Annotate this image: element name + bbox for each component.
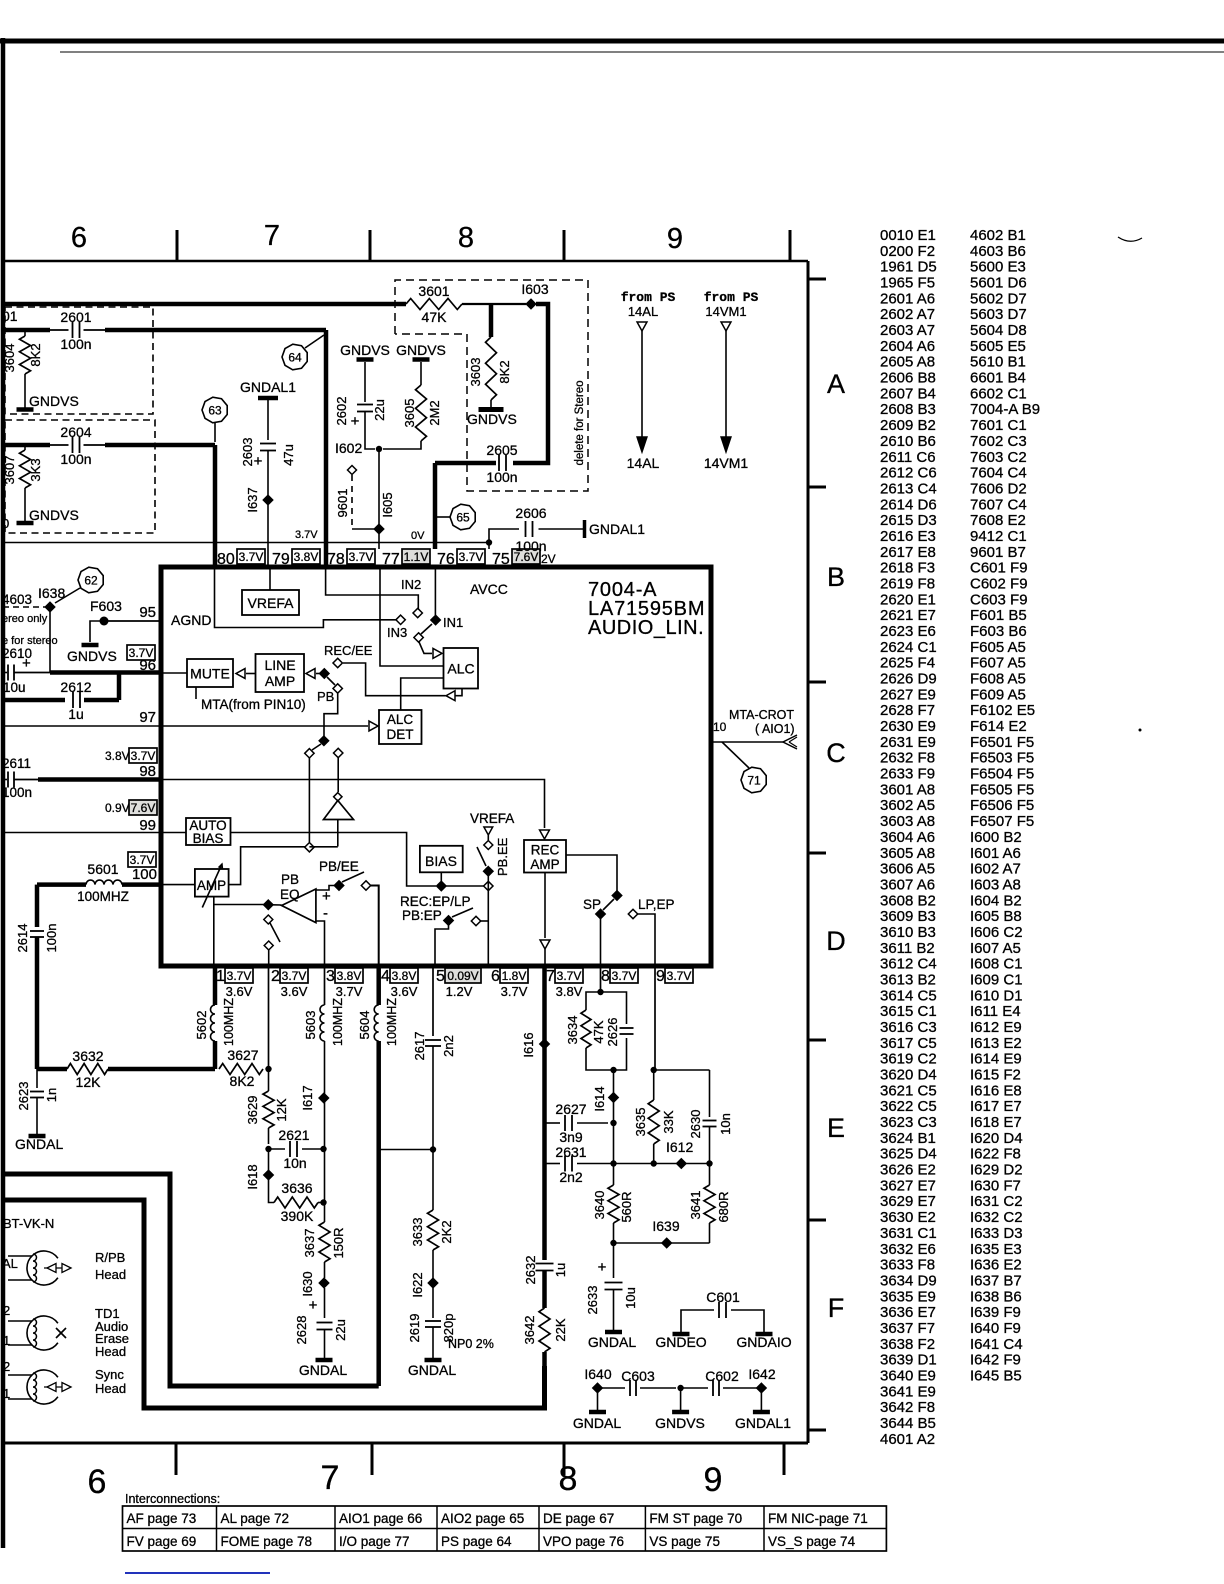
wire pin96 thick xyxy=(50,670,161,675)
column number 7 top xyxy=(264,220,280,252)
wire AMP right riser xyxy=(229,847,305,885)
svg-text:F603: F603 xyxy=(90,598,122,614)
svg-text:3621 C5: 3621 C5 xyxy=(880,1082,937,1099)
svg-text:2616 E3: 2616 E3 xyxy=(880,528,936,545)
resistor R3642 xyxy=(522,1308,568,1352)
svg-text:C602: C602 xyxy=(705,1368,739,1384)
svg-text:3635: 3635 xyxy=(633,1108,648,1137)
svg-text:AL page 72: AL page 72 xyxy=(221,1511,290,1526)
svg-text:I612 E9: I612 E9 xyxy=(970,1019,1022,1036)
IC pin 76 header xyxy=(437,549,485,568)
svg-text:4: 4 xyxy=(381,968,390,985)
svg-text:Head: Head xyxy=(95,1344,126,1359)
svg-text:2631 E9: 2631 E9 xyxy=(880,734,936,751)
svg-text:IN1: IN1 xyxy=(443,615,463,630)
label AVCC xyxy=(470,581,508,597)
svg-text:C603: C603 xyxy=(621,1368,655,1384)
wire pin100 corner down xyxy=(35,885,40,927)
svg-text:Head: Head xyxy=(95,1381,126,1396)
svg-text:22u: 22u xyxy=(372,399,387,421)
node I617 xyxy=(300,1041,329,1204)
svg-text:2602: 2602 xyxy=(334,397,349,426)
node REC/EE contact xyxy=(333,658,342,667)
capacitor C2611 xyxy=(2,772,32,801)
svg-text:3626 E2: 3626 E2 xyxy=(880,1162,936,1179)
svg-text:3616 C3: 3616 C3 xyxy=(880,1019,937,1036)
svg-text:2626 D9: 2626 D9 xyxy=(880,671,937,688)
resistor R3607 xyxy=(2,445,43,521)
wire down to pin78 xyxy=(324,330,329,567)
ground GNDVS R3604 xyxy=(17,393,79,410)
svg-text:F6506 F5: F6506 F5 xyxy=(970,797,1034,814)
svg-text:I640: I640 xyxy=(584,1366,611,1382)
capacitor C2619 xyxy=(407,1288,456,1358)
svg-text:3.8V: 3.8V xyxy=(556,984,583,999)
wire pin3 down xyxy=(324,966,326,1005)
capacitor C2601 xyxy=(60,309,91,352)
svg-text:I618 E7: I618 E7 xyxy=(970,1114,1022,1131)
svg-text:3634 D9: 3634 D9 xyxy=(880,1272,937,1289)
svg-text:I605: I605 xyxy=(380,492,395,517)
wire pin75 to 2606 xyxy=(489,529,519,543)
svg-text:14VM1: 14VM1 xyxy=(705,304,746,319)
switch lever pin2 tap xyxy=(270,923,280,942)
svg-text:2604 A6: 2604 A6 xyxy=(880,338,935,355)
wire 2606 to GNDAL1 xyxy=(539,528,584,530)
wire REC AMP right xyxy=(566,855,617,891)
label LP,EP xyxy=(638,897,675,912)
svg-text:2611 C6: 2611 C6 xyxy=(880,449,936,466)
svg-text:2612 C6: 2612 C6 xyxy=(880,465,937,482)
wire 3632 bus xyxy=(37,1067,67,1072)
svg-text:REC:EP/LP: REC:EP/LP xyxy=(400,894,471,909)
svg-text:Interconnections:: Interconnections: xyxy=(125,1492,220,1506)
svg-text:3640 E9: 3640 E9 xyxy=(880,1367,936,1384)
svg-text:DE page 67: DE page 67 xyxy=(543,1511,614,1526)
svg-text:2625 F4: 2625 F4 xyxy=(880,655,935,672)
svg-text:12K: 12K xyxy=(76,1074,102,1090)
wire pin2 inside xyxy=(268,950,270,966)
svg-text:PB.EE: PB.EE xyxy=(495,837,510,876)
connector octagon 65 xyxy=(437,504,475,530)
AMP variable arrow xyxy=(202,864,222,908)
svg-text:9601 B7: 9601 B7 xyxy=(970,544,1026,561)
svg-text:5603 D7: 5603 D7 xyxy=(970,306,1027,323)
IC pin 77 header xyxy=(382,549,430,568)
svg-text:E: E xyxy=(827,1113,845,1143)
svg-text:7602 C3: 7602 C3 xyxy=(970,433,1027,450)
frame top border xyxy=(3,260,808,263)
row letter C xyxy=(826,738,846,768)
svg-text:0: 0 xyxy=(2,516,9,531)
svg-text:3604: 3604 xyxy=(2,344,17,373)
svg-text:I616 E8: I616 E8 xyxy=(970,1082,1022,1099)
column tick 6/7 bottom xyxy=(175,1443,178,1475)
svg-text:2608 B3: 2608 B3 xyxy=(880,401,936,418)
label AIO1 xyxy=(755,722,795,736)
connector octagon 63 xyxy=(202,397,227,442)
voltage box 7.6V pin99 xyxy=(129,800,157,815)
svg-text:F6505 F5: F6505 F5 xyxy=(970,781,1034,798)
ground GNDAL 2623 xyxy=(15,1136,63,1152)
svg-text:7: 7 xyxy=(264,220,280,252)
svg-text:5601: 5601 xyxy=(87,861,118,877)
wire 2605 to pin76 xyxy=(433,463,438,549)
capacitor C2633 polarized xyxy=(585,1243,638,1330)
svg-text:3638 F2: 3638 F2 xyxy=(880,1336,935,1353)
svg-text:0.9V: 0.9V xyxy=(105,801,130,815)
svg-text:2606 B8: 2606 B8 xyxy=(880,370,936,387)
resistor R3635 xyxy=(633,1070,676,1164)
svg-text:I633 D3: I633 D3 xyxy=(970,1225,1023,1242)
node PB bypass bottom xyxy=(305,843,314,852)
svg-text:IN3: IN3 xyxy=(387,625,407,640)
svg-text:3605: 3605 xyxy=(402,399,417,428)
IC pin10 stub xyxy=(713,720,727,734)
resistor R3640 xyxy=(592,1160,634,1243)
label I602 xyxy=(335,440,362,456)
IC pin 6 header xyxy=(491,968,528,999)
label 2611 xyxy=(2,756,31,771)
capacitor C2610 polarized xyxy=(3,655,31,695)
svg-text:F601 B5: F601 B5 xyxy=(970,607,1027,624)
svg-text:3631 C1: 3631 C1 xyxy=(880,1225,937,1242)
wire 2602 top xyxy=(364,362,366,402)
IC pin 5 header xyxy=(436,968,481,999)
svg-text:7604 C4: 7604 C4 xyxy=(970,465,1027,482)
svg-text:3611 B2: 3611 B2 xyxy=(880,940,935,957)
row letter A xyxy=(827,369,845,399)
wire I638 down xyxy=(49,612,51,673)
svg-text:2601 A6: 2601 A6 xyxy=(880,290,935,307)
label pin 99 xyxy=(139,817,156,834)
node I614 xyxy=(592,1086,618,1111)
svg-text:I603 A8: I603 A8 xyxy=(970,876,1021,893)
interconnections table row 2 xyxy=(127,1534,856,1549)
svg-text:3619 C2: 3619 C2 xyxy=(880,1051,937,1068)
svg-text:3.7V: 3.7V xyxy=(667,969,692,983)
resistor R3634 xyxy=(565,1010,606,1048)
node IN common xyxy=(414,633,423,642)
wire 2617 down xyxy=(432,1047,434,1211)
svg-text:62: 62 xyxy=(84,574,98,588)
svg-text:76: 76 xyxy=(437,551,455,568)
label PB EQ xyxy=(280,872,300,902)
svg-text:REC: REC xyxy=(531,843,560,858)
wire BIAS junction right xyxy=(446,885,484,887)
label REC:EP/LP PB:EP xyxy=(400,894,471,923)
svg-text:GNDVS: GNDVS xyxy=(29,507,79,523)
svg-text:2V: 2V xyxy=(541,552,556,566)
node 2621 right junction xyxy=(320,1146,326,1152)
svg-text:64: 64 xyxy=(288,351,302,365)
svg-text:7: 7 xyxy=(321,1459,340,1497)
row letter B xyxy=(827,562,845,592)
svg-text:3620 D4: 3620 D4 xyxy=(880,1067,937,1084)
svg-text:7603 C2: 7603 C2 xyxy=(970,449,1027,466)
svg-text:3604 A6: 3604 A6 xyxy=(880,829,935,846)
capacitor C2628 polarized xyxy=(294,1288,348,1358)
label minus xyxy=(323,905,328,922)
svg-text:2619: 2619 xyxy=(407,1314,422,1343)
connector octagon 62 xyxy=(55,567,103,603)
label pin 97 xyxy=(139,709,156,726)
svg-text:0200 F2: 0200 F2 xyxy=(880,243,935,260)
node 3634 top junction xyxy=(597,989,603,995)
ground GNDAL 2619 xyxy=(408,1360,456,1378)
node pin2 tap top xyxy=(264,915,273,924)
svg-text:AF page 73: AF page 73 xyxy=(127,1511,197,1526)
svg-text:7: 7 xyxy=(546,968,555,985)
svg-text:2614: 2614 xyxy=(15,924,30,953)
svg-text:F614 E2: F614 E2 xyxy=(970,718,1027,735)
svg-text:2M2: 2M2 xyxy=(427,400,442,425)
svg-text:100MHZ: 100MHZ xyxy=(77,889,129,904)
svg-text:2630: 2630 xyxy=(688,1110,703,1139)
wire pin4 to bus xyxy=(376,1041,381,1386)
svg-text:100n: 100n xyxy=(60,336,91,352)
svg-text:GNDVS: GNDVS xyxy=(655,1415,705,1431)
wire pin77 to ALC xyxy=(380,569,444,666)
svg-text:3636: 3636 xyxy=(281,1180,312,1196)
node PB.EE pole xyxy=(484,867,493,876)
svg-text:3606 A5: 3606 A5 xyxy=(880,861,935,878)
column number 8 top xyxy=(458,222,474,254)
svg-text:GNDVS: GNDVS xyxy=(67,648,117,664)
svg-text:F609 A5: F609 A5 xyxy=(970,686,1026,703)
svg-text:65: 65 xyxy=(456,511,470,525)
label 4603 clipped xyxy=(2,592,32,607)
svg-text:5602: 5602 xyxy=(194,1011,209,1040)
svg-text:3601 A8: 3601 A8 xyxy=(880,781,935,798)
wire EQ minus to pin3 xyxy=(316,921,325,966)
wire F603 to ground xyxy=(90,621,104,642)
svg-text:3608 B2: 3608 B2 xyxy=(880,892,936,909)
wire 2602 bottom xyxy=(365,412,375,450)
arrow into ALC xyxy=(433,648,442,658)
capacitor C2623 xyxy=(16,1069,59,1134)
wire I605 down xyxy=(379,449,395,524)
wire to PB EQ apex xyxy=(272,904,282,906)
svg-text:I631 C2: I631 C2 xyxy=(970,1193,1023,1210)
svg-text:I610 D1: I610 D1 xyxy=(970,987,1023,1004)
block ALC DET xyxy=(379,710,422,744)
svg-text:3.7V: 3.7V xyxy=(557,969,582,983)
svg-text:3614 C5: 3614 C5 xyxy=(880,987,937,1004)
ground GNDVS C60x xyxy=(655,1412,705,1431)
inductor L5604 xyxy=(357,998,399,1046)
bus path1 bottom xyxy=(3,1174,379,1386)
resistor R3632 xyxy=(67,1048,108,1090)
IC pin 1 header xyxy=(216,968,253,999)
svg-text:100: 100 xyxy=(132,866,157,883)
wire pin99 inside to AUTO BIAS xyxy=(161,832,186,834)
column tick 9/end bottom xyxy=(783,1443,786,1475)
node I639 xyxy=(652,1218,679,1248)
svg-text:3632 E6: 3632 E6 xyxy=(880,1241,936,1258)
dashed box stereo lower xyxy=(5,420,155,533)
svg-text:78: 78 xyxy=(327,551,345,568)
svg-text:C: C xyxy=(826,738,846,768)
wire pin97 long xyxy=(3,725,161,727)
svg-text:71: 71 xyxy=(747,774,761,788)
node IN2 contact xyxy=(413,608,422,617)
svg-text:C603 F9: C603 F9 xyxy=(970,591,1028,608)
svg-text:from PS: from PS xyxy=(621,290,676,305)
wire I642 down xyxy=(760,1393,762,1410)
node I637 xyxy=(245,487,273,512)
svg-text:AMP: AMP xyxy=(530,857,559,872)
svg-text:63: 63 xyxy=(208,404,222,418)
wire pin78 IN2 feed xyxy=(326,569,419,609)
wire net 2V long xyxy=(3,542,489,544)
svg-text:97: 97 xyxy=(139,709,156,726)
svg-text:AGND: AGND xyxy=(171,612,211,628)
wire bus to 3601 xyxy=(326,302,406,307)
label pin 98 xyxy=(139,763,156,780)
node IN3 contact xyxy=(396,615,405,624)
svg-text:from PS: from PS xyxy=(704,290,759,305)
svg-text:8: 8 xyxy=(559,1460,578,1498)
row tick right at y=1220 xyxy=(808,1219,826,1222)
node LINE AMP sw pole xyxy=(320,669,329,678)
svg-text:7608 E2: 7608 E2 xyxy=(970,512,1026,529)
svg-text:B: B xyxy=(827,562,845,592)
svg-text:3607 A6: 3607 A6 xyxy=(880,876,935,893)
svg-text:5604 D8: 5604 D8 xyxy=(970,322,1027,339)
node BIAS junction xyxy=(437,881,446,890)
block ALC xyxy=(444,648,479,689)
svg-text:I639: I639 xyxy=(652,1218,679,1234)
row letter E xyxy=(827,1113,845,1143)
svg-text:GNDVS: GNDVS xyxy=(396,342,446,358)
svg-text:I612: I612 xyxy=(666,1139,693,1155)
resistor R3633 xyxy=(410,1210,454,1250)
stray curve mark top right xyxy=(1118,237,1142,241)
svg-text:VREFA: VREFA xyxy=(248,595,295,611)
svg-text:I615 F2: I615 F2 xyxy=(970,1067,1021,1084)
node I605 xyxy=(374,524,383,533)
node 2630 bottom xyxy=(706,1160,712,1166)
ground GNDAL I640 xyxy=(573,1412,621,1431)
svg-text:BIAS: BIAS xyxy=(193,831,224,846)
label F603 xyxy=(90,598,122,614)
svg-text:I629 D2: I629 D2 xyxy=(970,1162,1023,1179)
IC pin 79 header xyxy=(272,549,320,568)
wire pin100 left xyxy=(37,882,86,887)
svg-text:AL: AL xyxy=(2,1256,18,1271)
capacitor C2626 xyxy=(605,1018,634,1047)
svg-text:2626: 2626 xyxy=(605,1018,620,1047)
svg-text:DET: DET xyxy=(387,727,414,742)
capacitor C2602 polarized xyxy=(334,397,387,430)
svg-text:2K2: 2K2 xyxy=(439,1220,454,1243)
svg-text:( AIO1): ( AIO1) xyxy=(755,722,795,736)
ground GNDAL 2633 xyxy=(588,1332,636,1350)
svg-text:1965 F5: 1965 F5 xyxy=(880,275,935,292)
svg-text:100n: 100n xyxy=(486,469,517,485)
svg-text:I637 B7: I637 B7 xyxy=(970,1272,1022,1289)
capacitor C2606 xyxy=(515,505,546,554)
svg-text:3K3: 3K3 xyxy=(28,458,43,481)
block REC AMP xyxy=(524,840,566,873)
svg-text:01: 01 xyxy=(2,308,18,324)
svg-text:2618 F3: 2618 F3 xyxy=(880,560,935,577)
svg-text:0010 E1: 0010 E1 xyxy=(880,227,936,244)
wire pin79 to VREFA xyxy=(269,569,271,590)
row tick right at y=853 xyxy=(808,852,826,855)
svg-text:FM ST page 70: FM ST page 70 xyxy=(649,1511,742,1526)
capacitor C2612 xyxy=(3,679,92,722)
head terminal label 2b xyxy=(3,1359,10,1374)
svg-text:100MHZ: 100MHZ xyxy=(331,998,345,1046)
node PB sw2 throw left xyxy=(305,749,314,758)
column tick 8/9 bottom xyxy=(563,1443,566,1475)
svg-text:3.8V: 3.8V xyxy=(392,969,417,983)
svg-text:EQ: EQ xyxy=(280,887,300,902)
node I622 xyxy=(410,1250,438,1298)
svg-text:150R: 150R xyxy=(331,1227,346,1258)
node LP EP contact xyxy=(628,909,637,918)
svg-text:79: 79 xyxy=(272,551,290,568)
column number 9 bottom xyxy=(704,1461,723,1499)
svg-text:I641 C4: I641 C4 xyxy=(970,1336,1023,1353)
svg-text:75: 75 xyxy=(492,551,510,568)
wire SP to pin8 xyxy=(600,918,602,966)
svg-text:4602 B1: 4602 B1 xyxy=(970,227,1026,244)
wire 5602 down xyxy=(213,1041,218,1069)
parts location list column 2 xyxy=(970,227,1040,1384)
switch lever SP xyxy=(603,899,614,910)
svg-text:3623 C3: 3623 C3 xyxy=(880,1114,937,1131)
node 2627 junction xyxy=(610,1118,616,1164)
svg-text:3634: 3634 xyxy=(565,1016,580,1045)
wire AUTO BIAS out xyxy=(231,833,437,887)
svg-text:3.7V: 3.7V xyxy=(349,550,374,564)
node PB.EE junction xyxy=(484,881,493,890)
svg-text:9: 9 xyxy=(704,1461,723,1499)
svg-text:1u: 1u xyxy=(553,1263,568,1277)
node pin75 junction xyxy=(486,539,492,545)
capacitor C601 bridge xyxy=(681,1289,764,1334)
interconnections label xyxy=(125,1492,220,1506)
label REC/EE xyxy=(324,643,373,658)
svg-text:3.7V: 3.7V xyxy=(295,529,318,541)
label pin 96 xyxy=(139,657,156,674)
svg-text:AMP: AMP xyxy=(265,673,295,689)
svg-text:9412 C1: 9412 C1 xyxy=(970,528,1027,545)
svg-text:+: + xyxy=(309,1297,318,1314)
svg-text:7004-A B9: 7004-A B9 xyxy=(970,401,1040,418)
bus path2 bottom xyxy=(3,1200,545,1408)
svg-text:GNDAL1: GNDAL1 xyxy=(589,521,645,537)
row letter F xyxy=(828,1293,845,1323)
svg-text:2633 F9: 2633 F9 xyxy=(880,766,935,783)
parts location list column 1 xyxy=(880,227,937,1448)
node PB.EE throw xyxy=(484,841,493,850)
svg-text:5: 5 xyxy=(436,968,445,985)
label NP0 2% xyxy=(448,1337,494,1351)
TD1 audio erase head xyxy=(8,1306,129,1359)
svg-text:2603 A7: 2603 A7 xyxy=(880,322,935,339)
svg-text:2632 F8: 2632 F8 xyxy=(880,750,935,767)
node I605 junction xyxy=(376,446,382,452)
svg-text:+: + xyxy=(22,655,31,672)
switch lever LINE AMP xyxy=(327,677,335,685)
label I638 xyxy=(38,585,65,601)
svg-text:PB: PB xyxy=(281,872,299,887)
R/PB head xyxy=(8,1250,126,1285)
